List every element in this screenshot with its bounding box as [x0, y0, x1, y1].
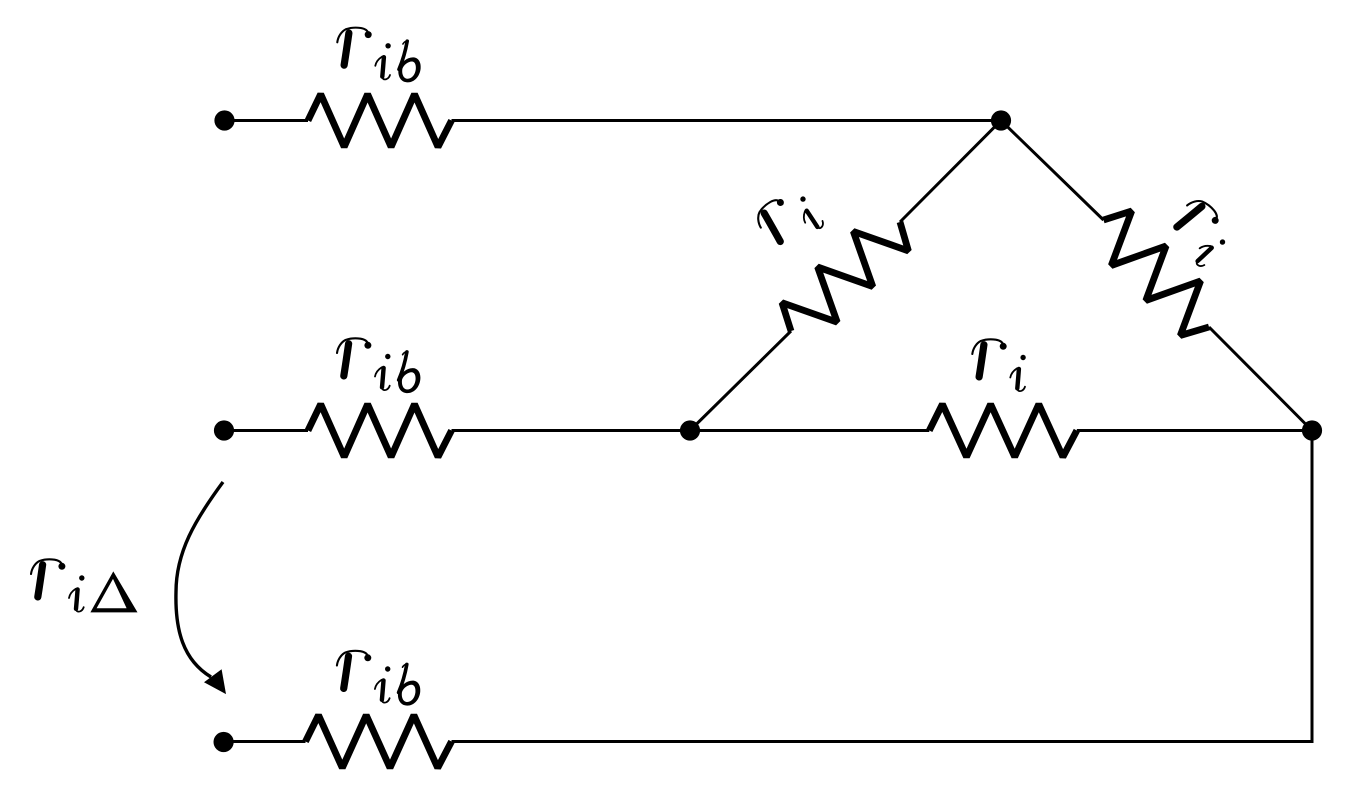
- label r_iDelta: [31, 559, 138, 612]
- resistor r_i (horizontal): [929, 404, 1077, 457]
- wire N3 down and along bottom rail: [452, 431, 1313, 742]
- wire T2 to resistor r_ib middle: [224, 429, 308, 432]
- resistor r_i (left diagonal): [782, 222, 908, 331]
- wire N2 to resistor r_i horizontal: [690, 429, 929, 432]
- wire top rail to node N1: [452, 119, 1002, 122]
- terminal node T3 (bottom-left): [214, 732, 234, 752]
- node N3 (middle-right): [1302, 420, 1322, 440]
- curved arrow from T2 toward T3: [176, 482, 223, 677]
- label r_i (horizontal): [972, 339, 1026, 391]
- label r_ib (middle): [337, 338, 420, 393]
- wire T1 to resistor r_ib top: [225, 119, 309, 122]
- wire right diagonal resistor to node N3: [1209, 327, 1312, 431]
- resistor r_ib (top): [308, 94, 452, 147]
- wire N1 to right diagonal resistor: [1001, 121, 1104, 221]
- arrowhead: [204, 669, 226, 694]
- wire resistor to terminal T3: [224, 740, 306, 743]
- label r_i (left diagonal): [752, 183, 826, 257]
- node N2 (middle-left): [680, 420, 700, 440]
- wire middle rail to node N2: [452, 429, 691, 432]
- wire r_i horizontal to node N3: [1077, 429, 1312, 432]
- terminal node T1 (top-left): [214, 110, 234, 130]
- wire N2 to left diagonal resistor: [690, 331, 791, 431]
- resistor r_ib (middle): [308, 404, 452, 457]
- label r_ib (bottom): [337, 651, 420, 706]
- node N1 (top): [991, 110, 1011, 130]
- resistor r_ib (bottom): [306, 715, 452, 768]
- label r_i (right diagonal): [1162, 195, 1236, 269]
- wire left diagonal resistor to node N1: [900, 121, 1001, 223]
- resistor r_i (right diagonal): [1104, 211, 1210, 336]
- label r_ib (top): [337, 28, 420, 83]
- terminal node T2 (middle-left): [214, 420, 234, 440]
